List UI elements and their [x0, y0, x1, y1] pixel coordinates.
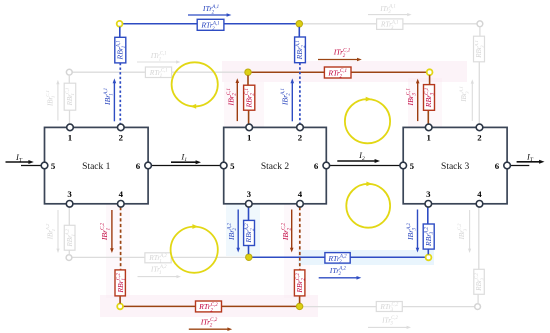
arrow IBr1C2	[100, 210, 114, 253]
branch stack3 pin3 wire	[427, 207, 430, 254]
svg-text:5: 5	[51, 161, 56, 171]
wire rail C2	[123, 305, 297, 307]
faint branch stack1 pin1	[68, 75, 70, 124]
node A1 right (junction dot)	[296, 21, 302, 27]
branch stack3 pin1 wire	[428, 75, 429, 124]
svg-text:5: 5	[410, 161, 415, 171]
branch stack1 pin4 wire	[119, 207, 122, 303]
faint rail segment C2 right (inactive)	[303, 306, 475, 308]
stack 3 pin4	[476, 189, 483, 207]
faint rail segment C1 left (inactive)	[72, 71, 245, 73]
loop L3 middle-top	[345, 97, 390, 144]
stack 3 block	[403, 127, 507, 203]
branch stack2 pin2 wire	[298, 27, 301, 124]
resistor RBr3C1	[424, 85, 436, 111]
faint resistor RTr3A1	[377, 19, 403, 31]
stack 2 pin6	[314, 161, 330, 171]
svg-text:2: 2	[477, 132, 482, 142]
svg-text:Stack 3: Stack 3	[441, 162, 469, 172]
faint node stack1 bottom-left	[66, 255, 72, 261]
stack 3 pin1	[425, 124, 432, 142]
svg-text:1: 1	[247, 132, 251, 142]
tint washes (artifact shading)	[100, 61, 467, 317]
svg-text:3: 3	[247, 189, 252, 199]
arrow IT right	[517, 152, 545, 164]
svg-text:1: 1	[426, 132, 430, 142]
faint label ITr1A2	[138, 265, 181, 279]
faint resistor RBr1A2	[64, 225, 75, 250]
faint label ITr1C1	[137, 51, 181, 64]
node C1 right (open)	[427, 69, 433, 75]
label ITr2A2 with arrow	[319, 266, 362, 280]
arrow IBr2C1	[226, 78, 239, 121]
wire stack2 to stack3	[330, 165, 400, 167]
svg-text:Stack 1: Stack 1	[82, 162, 110, 172]
faint arrow IBr3C2	[457, 210, 472, 253]
wire rail A1	[122, 23, 297, 25]
svg-text:3: 3	[67, 189, 72, 199]
resistor RTr2A1	[197, 19, 224, 32]
resistor RBr2A2	[244, 220, 256, 245]
arrow IBr2A1	[280, 78, 294, 121]
faint resistor RTr3C2	[376, 302, 402, 314]
svg-text:1: 1	[68, 132, 72, 142]
arrow I2	[337, 150, 380, 163]
stack 2 block	[224, 127, 327, 203]
stack 2 pin5	[220, 161, 235, 171]
label ITr2C1 with arrow	[318, 48, 362, 62]
wire stack1 to stack2	[151, 165, 220, 167]
stack 1 pin4	[118, 189, 125, 207]
loop L1 top-left	[172, 62, 218, 108]
svg-text:Stack 2: Stack 2	[261, 162, 289, 172]
stack 2 pin3	[246, 189, 253, 207]
svg-text:2: 2	[298, 132, 303, 142]
label ITr2A1 with arrow	[188, 4, 231, 17]
stack 3 pin3	[425, 189, 432, 207]
wire rail A2	[252, 256, 426, 258]
resistor RTr2A2	[325, 253, 350, 266]
faint arrow IBr1A2	[45, 210, 59, 253]
node C1 left (junction dot)	[245, 69, 251, 75]
stack 1 block	[45, 127, 149, 203]
svg-text:5: 5	[230, 161, 235, 171]
arrow IBr2A2	[227, 210, 240, 253]
stack 3 pin6	[495, 161, 511, 171]
faint rail segment A1 right (inactive)	[302, 23, 477, 25]
branch stack2 pin3 wire	[248, 207, 250, 254]
resistor RBr2A1	[295, 37, 307, 63]
resistor RBr3A2	[423, 224, 435, 249]
faint resistor RBr3C2	[474, 269, 485, 294]
arrow IT left	[6, 152, 34, 164]
faint arrow IBr3A1	[459, 79, 474, 121]
stack 2 pin4	[297, 189, 304, 207]
arrow IBr1A1	[103, 78, 116, 121]
svg-text:4: 4	[298, 189, 303, 199]
arrow IBr2C2	[281, 210, 294, 253]
svg-text:6: 6	[314, 161, 319, 171]
label ITr2C2 with arrow	[189, 317, 232, 331]
svg-text:6: 6	[136, 161, 141, 171]
resistor RBr1C2	[115, 270, 127, 296]
faint rail segment A2 left (inactive)	[72, 256, 246, 258]
faint arrow IBr1C1	[45, 80, 60, 121]
svg-text:4: 4	[119, 189, 124, 199]
faint node stack3 top-right	[477, 21, 483, 27]
svg-text:4: 4	[477, 189, 482, 199]
arrow IBr3C1	[406, 79, 420, 122]
faint resistor RTr1A2	[145, 253, 171, 265]
stack 2 pin1	[246, 124, 253, 142]
loop L2 bottom-left	[171, 224, 218, 273]
resistor RTr2C1	[324, 67, 351, 80]
stack 3 pin5	[400, 161, 415, 171]
resistor RBr2C2	[294, 270, 306, 296]
faint label ITr3A1	[368, 4, 412, 16]
stack 2 pin2	[297, 124, 304, 142]
faint branch stack3 pin2	[478, 27, 481, 124]
arrow IBr3A2	[406, 210, 419, 253]
stack 1 pin5	[41, 161, 56, 171]
resistor RBr1A1	[115, 37, 127, 63]
stack 1 pin1	[67, 124, 74, 142]
faint resistor RTr1C1	[145, 67, 171, 79]
node A2 left (junction dot)	[246, 254, 252, 260]
wire rail C1	[251, 71, 427, 73]
faint branch stack1 pin3	[68, 207, 70, 255]
branch stack2 pin4 wire	[299, 207, 301, 303]
faint label ITr3C2	[368, 315, 411, 329]
node C2 right (junction dot)	[296, 303, 302, 309]
loop L4 middle-bottom	[346, 182, 390, 228]
branch stack1 pin2 wire	[119, 27, 122, 125]
wire main bus left stub	[21, 165, 42, 167]
stack 1 pin3	[66, 189, 73, 207]
stack 1 pin6	[136, 161, 152, 171]
faint branch stack3 pin4	[477, 207, 480, 304]
resistor RTr2C2	[196, 301, 222, 314]
node A1 left (open)	[117, 21, 123, 27]
svg-text:3: 3	[426, 189, 431, 199]
faint resistor RBr1C1	[64, 83, 76, 110]
node A2 right (open)	[426, 255, 432, 261]
faint node stack1 top-left	[66, 69, 72, 75]
stack 1 pin2	[118, 124, 125, 142]
resistor RBr2C1	[244, 85, 256, 110]
wire main bus right stub	[510, 165, 529, 167]
svg-text:6: 6	[495, 161, 500, 171]
branch stack2 pin1 wire	[247, 75, 250, 124]
faint resistor RBr3A1	[474, 36, 485, 62]
faint node stack3 bottom-right	[475, 304, 481, 310]
node C2 left (open)	[117, 304, 123, 310]
arrow I1	[171, 152, 201, 165]
svg-text:2: 2	[119, 132, 124, 142]
stack 3 pin2	[476, 124, 483, 142]
